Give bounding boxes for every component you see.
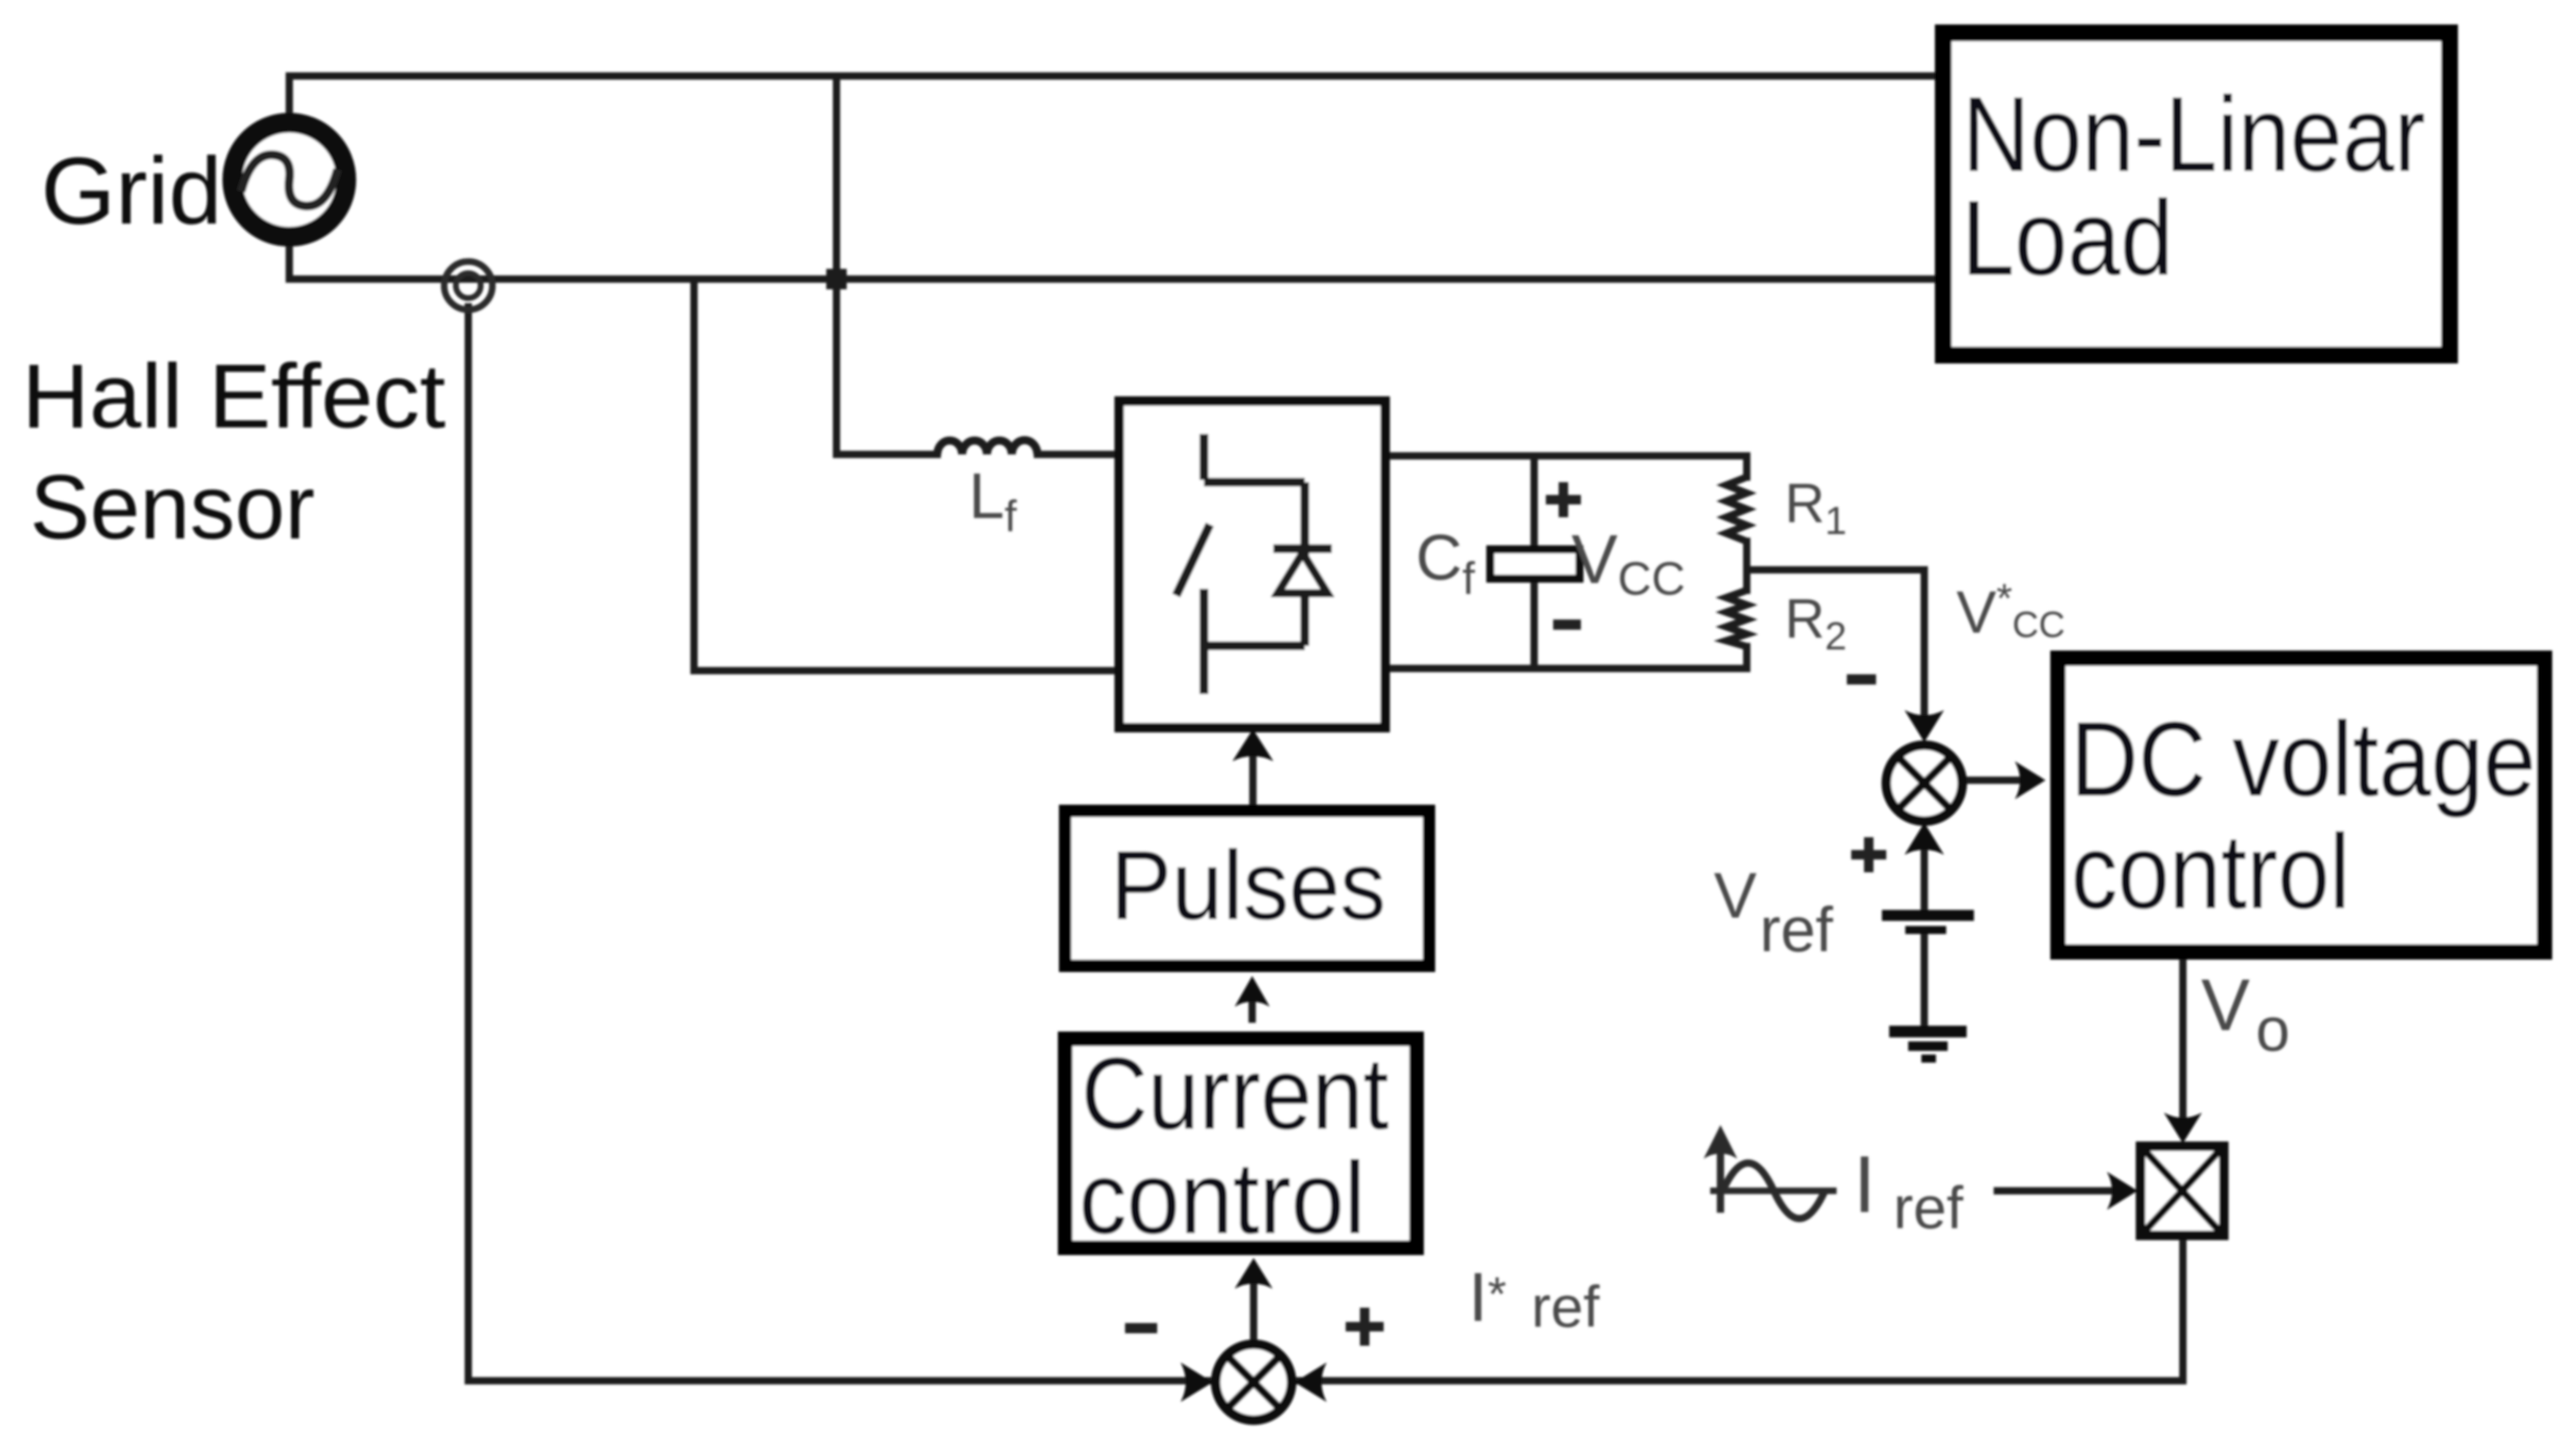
Non-Linear Load box xyxy=(1943,33,2450,355)
label: - left of summer1 xyxy=(1125,1323,1157,1333)
converter box xyxy=(1119,401,1385,728)
converter switch top lead xyxy=(1200,434,1208,480)
iref sine source: vertical arrow axis xyxy=(1717,1148,1724,1213)
arrow into summer1 left xyxy=(1181,1362,1213,1402)
wire: grid source bottom stub xyxy=(286,243,293,279)
wire: converter bottom input xyxy=(694,667,1119,674)
arrow between current control and pulses xyxy=(1249,999,1256,1023)
wire: converter top output xyxy=(1385,452,1747,460)
converter loop right xyxy=(1300,482,1309,646)
iref sine source: horizontal axis xyxy=(1710,1188,1837,1194)
wire: battery to ground xyxy=(1921,932,1928,1027)
wire: hall sensor feedback vertical xyxy=(465,307,472,1381)
label: - below capacitor xyxy=(1553,620,1581,630)
svg-text:Hall Effect: Hall Effect xyxy=(22,346,446,447)
wire: top grid line xyxy=(289,72,1940,80)
label: - left of summer2 xyxy=(1847,674,1876,685)
hall effect sensor rings xyxy=(444,262,492,310)
arrow into multiplier left xyxy=(2107,1172,2138,1210)
svg-text:Grid: Grid xyxy=(41,137,222,244)
capacitor Cf body xyxy=(1490,549,1579,579)
wire: inductor left lead xyxy=(836,451,937,458)
Current control box xyxy=(1065,1039,1417,1248)
svg-text:Pulses: Pulses xyxy=(1110,831,1386,940)
converter loop bottom xyxy=(1204,641,1305,650)
Pulses box xyxy=(1065,811,1429,966)
wire: branch from bottom line down xyxy=(690,279,698,671)
junction dot at branch crossing xyxy=(826,269,847,289)
wire: capacitor top lead xyxy=(1531,456,1538,549)
summing junction 2 (DC voltage error) xyxy=(1886,745,1962,821)
arrow into summer1 right xyxy=(1295,1362,1327,1402)
battery Vref long plate xyxy=(1882,910,1974,921)
svg-text:Current: Current xyxy=(1081,1036,1389,1151)
wire: tap to V*cc xyxy=(1747,570,1924,714)
wire: iref to multiplier xyxy=(1997,1187,2127,1194)
resistor R1 zigzag xyxy=(1726,477,1747,541)
arrow into DC box xyxy=(2015,761,2046,799)
wire: multiplier down to bottom feedback xyxy=(2179,1237,2187,1381)
wire: between R1 and tap xyxy=(1743,541,1750,590)
wire: summer1 up to current control xyxy=(1250,1287,1257,1341)
sine glyph inside grid source xyxy=(241,155,338,206)
wire: converter bottom output xyxy=(1385,665,1747,672)
arrow into summer2 top xyxy=(1905,710,1944,742)
wire: branch from top line down to inductor xyxy=(833,76,840,454)
wire: bottom grid line xyxy=(289,275,1940,283)
svg-text:DC voltage: DC voltage xyxy=(2070,700,2536,818)
inductor Lf xyxy=(937,440,1037,454)
wire: capacitor bottom lead xyxy=(1531,579,1538,668)
svg-text:Load: Load xyxy=(1962,178,2173,297)
wire: summer2 to battery xyxy=(1921,847,1928,912)
wire: grid source top stub xyxy=(286,76,293,117)
label: + above capacitor xyxy=(1546,482,1581,517)
svg-text:Non-Linear: Non-Linear xyxy=(1962,75,2425,194)
DC voltage control box xyxy=(2058,658,2545,952)
arrow into current control bottom xyxy=(1235,1258,1273,1289)
wire: summer2 output to DC box xyxy=(1958,777,2037,784)
wire: Vo from DC box to multiplier xyxy=(2179,959,2187,1134)
arrow into multiplier top xyxy=(2164,1113,2202,1143)
wire: resistor chain top segment xyxy=(1743,456,1750,477)
label: + right of summer1 xyxy=(1346,1308,1384,1346)
summing junction 1 (current error) xyxy=(1216,1344,1292,1420)
svg-text:control: control xyxy=(1079,1140,1365,1255)
wire: inductor right lead xyxy=(1037,451,1119,458)
label: + below summer2 xyxy=(1851,837,1886,872)
converter switch blade xyxy=(1176,525,1210,595)
svg-text:control: control xyxy=(2071,812,2350,931)
ground xyxy=(1889,1032,1967,1059)
wire: pulses to converter xyxy=(1249,760,1257,805)
converter switch bottom lead xyxy=(1200,589,1208,694)
battery Vref short plate xyxy=(1905,926,1946,934)
AC source circle (Grid) xyxy=(232,123,346,237)
diode triangle xyxy=(1278,553,1327,593)
multiplier box xyxy=(2141,1146,2224,1235)
arrow into summer2 bottom xyxy=(1905,823,1944,855)
converter loop top xyxy=(1204,478,1305,487)
resistor R2 zigzag xyxy=(1726,590,1747,647)
iref sine source: sine wave xyxy=(1723,1163,1825,1219)
diode cathode bar xyxy=(1273,544,1332,553)
svg-text:Sensor: Sensor xyxy=(30,457,315,558)
arrow into converter bottom xyxy=(1232,729,1273,761)
wire: bottom feedback horizontal xyxy=(468,1377,2183,1384)
wire: below R2 xyxy=(1743,647,1750,668)
